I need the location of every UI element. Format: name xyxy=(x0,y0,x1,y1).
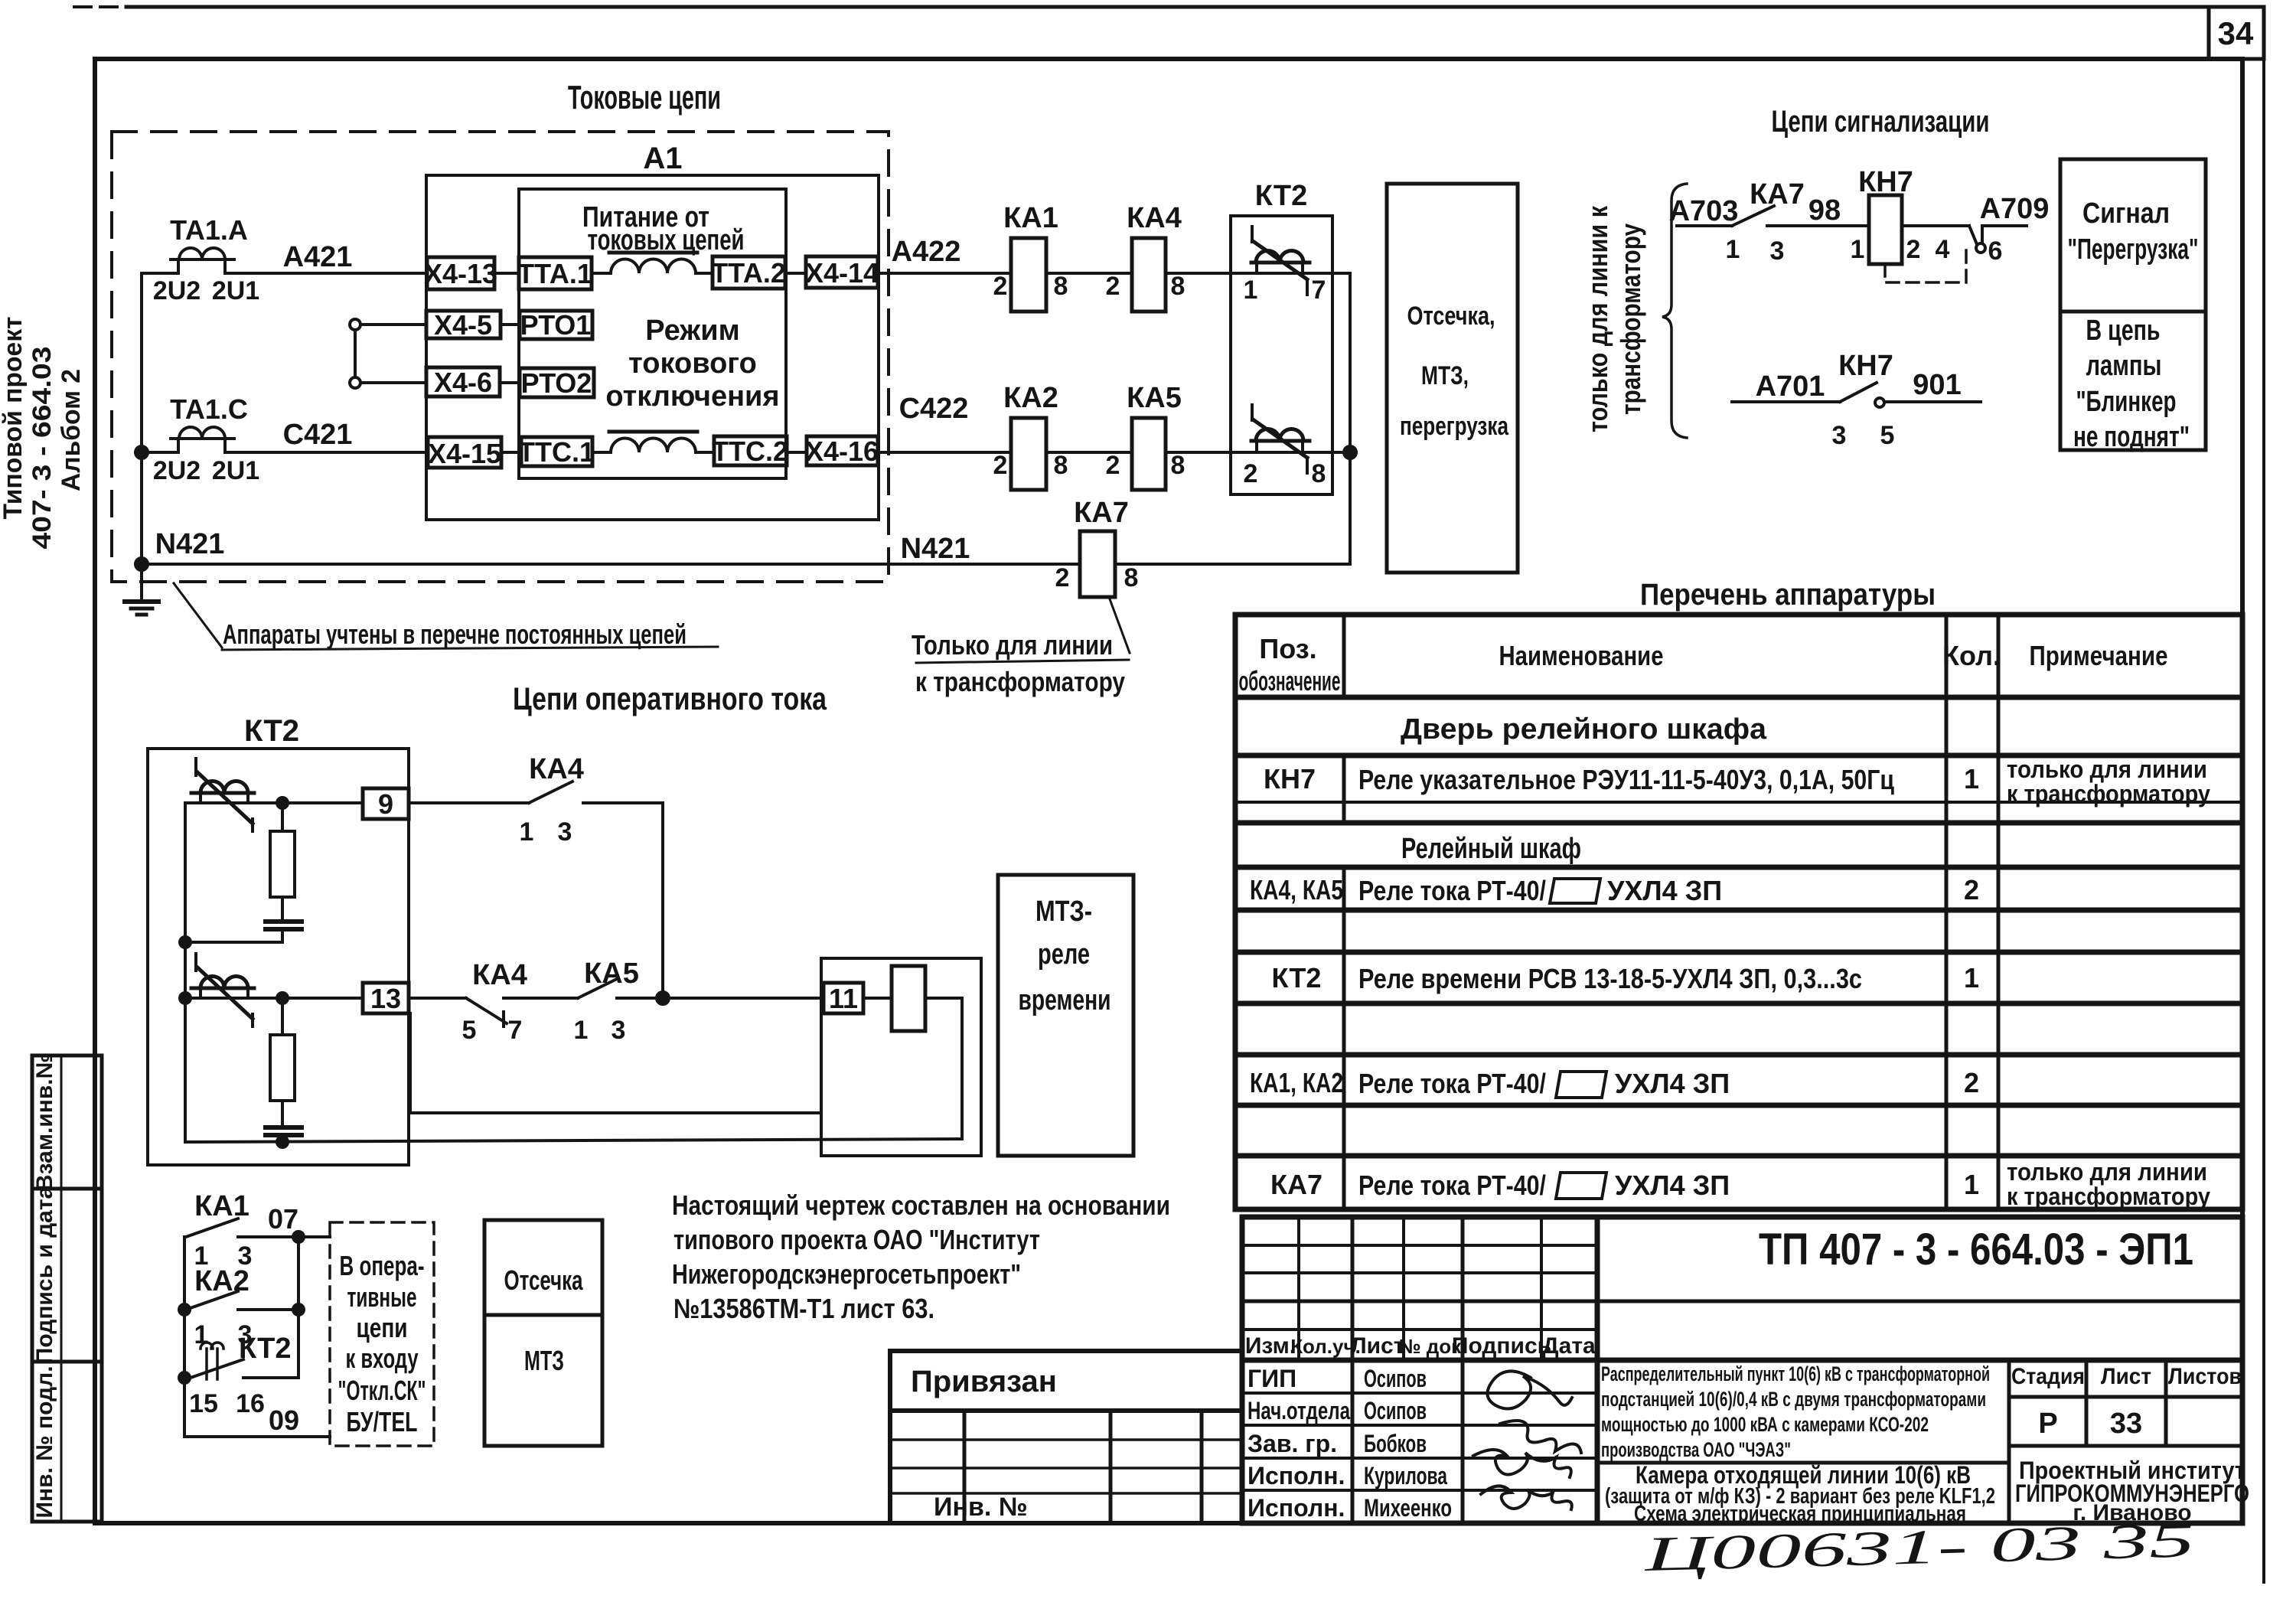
svg-text:УХЛ4 ЗП: УХЛ4 ЗП xyxy=(1615,1068,1730,1099)
svg-text:КА7: КА7 xyxy=(1074,497,1129,529)
svg-text:ТТА.1: ТТА.1 xyxy=(517,258,592,289)
svg-text:УХЛ4 ЗП: УХЛ4 ЗП xyxy=(1615,1170,1730,1201)
svg-text:А422: А422 xyxy=(892,236,961,268)
svg-text:КА2: КА2 xyxy=(1003,382,1058,414)
svg-text:Реле тока РТ-40/: Реле тока РТ-40/ xyxy=(1358,1068,1546,1099)
svg-text:КА4: КА4 xyxy=(529,753,584,785)
svg-text:Кол.: Кол. xyxy=(1942,640,2001,671)
svg-text:С421: С421 xyxy=(283,419,353,451)
svg-text:только для линии к: только для линии к xyxy=(1582,205,1613,432)
svg-text:3: 3 xyxy=(1832,421,1847,450)
svg-text:КН7: КН7 xyxy=(1858,166,1913,198)
svg-text:6: 6 xyxy=(1988,237,2003,266)
svg-text:к трансформатору: к трансформатору xyxy=(2007,1183,2210,1210)
svg-text:№13586ТМ-Т1 лист 63.: №13586ТМ-Т1 лист 63. xyxy=(673,1293,934,1324)
svg-text:Взам.инв.№: Взам.инв.№ xyxy=(32,1053,57,1191)
svg-text:7: 7 xyxy=(1312,276,1326,305)
svg-text:реле: реле xyxy=(1038,938,1090,971)
svg-text:цепи: цепи xyxy=(357,1312,408,1343)
svg-text:2: 2 xyxy=(993,272,1008,301)
svg-text:07: 07 xyxy=(268,1203,298,1235)
svg-text:Примечание: Примечание xyxy=(2030,640,2168,671)
svg-text:КТ2: КТ2 xyxy=(1255,180,1308,212)
svg-text:33: 33 xyxy=(2110,1408,2142,1440)
svg-text:Х4-6: Х4-6 xyxy=(434,367,492,398)
svg-text:34: 34 xyxy=(2218,15,2254,51)
svg-text:3: 3 xyxy=(1770,237,1785,266)
svg-text:2: 2 xyxy=(993,451,1008,480)
svg-text:5: 5 xyxy=(462,1016,477,1045)
svg-text:Инв. № подл.: Инв. № подл. xyxy=(32,1365,57,1518)
svg-text:1: 1 xyxy=(1964,1169,1979,1200)
svg-text:Реле указательное РЭУ11-11-5-4: Реле указательное РЭУ11-11-5-40У3, 0,1А,… xyxy=(1358,764,1894,795)
svg-text:Исполн.: Исполн. xyxy=(1247,1462,1345,1489)
svg-text:КТ2: КТ2 xyxy=(244,714,299,748)
svg-text:1: 1 xyxy=(194,1241,209,1271)
svg-text:мощностью до 1000 кВА с камера: мощностью до 1000 кВА с камерами КСО-202 xyxy=(1601,1413,1929,1436)
svg-text:КА7: КА7 xyxy=(1270,1169,1322,1200)
svg-text:Токовые цепи: Токовые цепи xyxy=(568,79,721,116)
svg-text:2: 2 xyxy=(1055,563,1070,592)
svg-text:Х4-13: Х4-13 xyxy=(424,258,497,289)
svg-text:901: 901 xyxy=(1913,369,1961,401)
svg-text:Листов: Листов xyxy=(2168,1364,2242,1389)
svg-text:лампы: лампы xyxy=(2086,350,2162,382)
svg-text:КА1: КА1 xyxy=(194,1190,249,1222)
svg-text:15: 15 xyxy=(189,1389,218,1418)
svg-text:1: 1 xyxy=(1726,235,1740,264)
svg-text:Перечень аппаратуры: Перечень аппаратуры xyxy=(1640,578,1936,612)
svg-text:13: 13 xyxy=(370,983,401,1014)
svg-text:Нижегородскэнергосетьпроект": Нижегородскэнергосетьпроект" xyxy=(672,1258,1021,1290)
svg-text:Релейный шкаф: Релейный шкаф xyxy=(1401,833,1581,865)
svg-text:только для линии: только для линии xyxy=(2007,755,2207,783)
svg-text:ГИП: ГИП xyxy=(1247,1365,1296,1392)
svg-text:В цепь: В цепь xyxy=(2086,315,2161,347)
svg-text:БУ/ТEL: БУ/ТEL xyxy=(347,1406,418,1437)
svg-text:МТЗ-: МТЗ- xyxy=(1035,896,1092,928)
svg-text:Нач.отдела: Нач.отдела xyxy=(1247,1397,1350,1424)
svg-text:Режим: Режим xyxy=(645,315,739,347)
svg-text:1: 1 xyxy=(194,1320,209,1349)
svg-text:1: 1 xyxy=(1964,763,1979,794)
svg-text:2U2: 2U2 xyxy=(153,276,201,305)
svg-text:Зав. гр.: Зав. гр. xyxy=(1247,1430,1337,1457)
svg-text:Х4-14: Х4-14 xyxy=(805,257,879,289)
svg-text:А709: А709 xyxy=(1980,193,2050,225)
svg-text:Только для линии: Только для линии xyxy=(912,629,1113,661)
svg-text:токового: токового xyxy=(628,347,757,380)
svg-text:2: 2 xyxy=(1106,272,1120,301)
svg-text:ТА1.А: ТА1.А xyxy=(170,214,248,246)
svg-text:"Откл.СК": "Откл.СК" xyxy=(338,1375,426,1406)
svg-text:Отсечка: Отсечка xyxy=(504,1264,584,1296)
svg-text:Настоящий чертеж составлен на: Настоящий чертеж составлен на основании xyxy=(672,1189,1170,1221)
svg-text:ТТС.2: ТТС.2 xyxy=(712,436,788,467)
svg-text:2: 2 xyxy=(1106,451,1120,480)
svg-text:отключения: отключения xyxy=(605,380,779,413)
svg-text:8: 8 xyxy=(1054,272,1068,301)
svg-text:Лист: Лист xyxy=(1351,1333,1405,1359)
svg-text:КА5: КА5 xyxy=(584,958,639,990)
svg-text:трансформатору: трансформатору xyxy=(1615,223,1646,415)
svg-text:Курилова: Курилова xyxy=(1364,1462,1447,1489)
svg-text:3: 3 xyxy=(558,817,572,847)
svg-text:В опера-: В опера- xyxy=(340,1250,425,1281)
svg-text:Альбом 2: Альбом 2 xyxy=(57,369,86,491)
svg-text:1: 1 xyxy=(574,1016,589,1045)
svg-text:4: 4 xyxy=(1936,235,1950,264)
svg-text:Поз.: Поз. xyxy=(1259,633,1316,664)
svg-text:Сигнал: Сигнал xyxy=(2082,197,2170,230)
svg-text:7: 7 xyxy=(508,1016,523,1045)
svg-text:КА1: КА1 xyxy=(1003,202,1058,234)
svg-text:времени: времени xyxy=(1019,984,1111,1016)
svg-text:3: 3 xyxy=(238,1320,253,1349)
svg-text:3: 3 xyxy=(612,1016,626,1045)
svg-text:Реле тока РТ-40/: Реле тока РТ-40/ xyxy=(1358,875,1546,906)
svg-text:2U1: 2U1 xyxy=(212,456,259,485)
svg-text:Стадия: Стадия xyxy=(2011,1364,2085,1389)
svg-text:1: 1 xyxy=(1244,276,1258,305)
svg-text:8: 8 xyxy=(1124,563,1139,592)
svg-text:Х4-5: Х4-5 xyxy=(434,309,492,341)
svg-text:407- 3 - 664.03: 407- 3 - 664.03 xyxy=(28,347,57,550)
svg-text:ТП 407 - 3 - 664.03 - ЭП1: ТП 407 - 3 - 664.03 - ЭП1 xyxy=(1759,1225,2193,1274)
svg-text:ТТС.1: ТТС.1 xyxy=(518,436,595,468)
svg-text:5: 5 xyxy=(1880,421,1895,450)
svg-text:1: 1 xyxy=(1964,962,1979,994)
svg-text:производства ОАО "ЧЭАЗ": производства ОАО "ЧЭАЗ" xyxy=(1601,1438,1791,1461)
svg-text:Исполн.: Исполн. xyxy=(1247,1494,1345,1522)
svg-text:тивные: тивные xyxy=(347,1281,417,1313)
svg-text:N421: N421 xyxy=(901,533,970,565)
svg-text:к трансформатору: к трансформатору xyxy=(915,666,1125,697)
svg-text:А703: А703 xyxy=(1669,195,1739,227)
svg-text:КА5: КА5 xyxy=(1127,382,1182,414)
svg-text:Отсечка,: Отсечка, xyxy=(1407,302,1495,331)
svg-text:Осипов: Осипов xyxy=(1364,1365,1427,1392)
svg-text:Дата: Дата xyxy=(1542,1333,1596,1359)
svg-text:Х4-15: Х4-15 xyxy=(428,438,501,469)
svg-text:Аппараты учтены в перечне пост: Аппараты учтены в перечне постоянных цеп… xyxy=(223,618,687,650)
svg-text:Инв. №: Инв. № xyxy=(934,1493,1028,1522)
svg-text:РТО1: РТО1 xyxy=(520,309,592,341)
svg-text:16: 16 xyxy=(236,1389,265,1418)
svg-text:Распределительный пункт 10(6): Распределительный пункт 10(6) кВ с транс… xyxy=(1601,1362,1990,1385)
svg-text:Х4-16: Х4-16 xyxy=(805,436,879,467)
svg-text:"Блинкер: "Блинкер xyxy=(2076,386,2177,418)
svg-text:А701: А701 xyxy=(1756,370,1825,403)
svg-text:Реле времени РСВ 13-18-5-УХЛ4: Реле времени РСВ 13-18-5-УХЛ4 ЗП, 0,3...… xyxy=(1358,963,1862,994)
svg-text:Типовой проект: Типовой проект xyxy=(0,317,28,520)
svg-text:С422: С422 xyxy=(899,393,969,425)
svg-text:КТ2: КТ2 xyxy=(1272,962,1322,994)
svg-text:перегрузка: перегрузка xyxy=(1400,412,1509,441)
svg-text:Дверь релейного шкафа: Дверь релейного шкафа xyxy=(1401,713,1767,746)
svg-text:МТЗ: МТЗ xyxy=(524,1345,564,1376)
svg-text:2: 2 xyxy=(1964,1067,1979,1098)
svg-text:Осипов: Осипов xyxy=(1364,1397,1427,1424)
svg-text:Р: Р xyxy=(2038,1408,2057,1440)
svg-text:2U1: 2U1 xyxy=(212,276,259,305)
svg-text:к трансформатору: к трансформатору xyxy=(2007,780,2210,808)
svg-text:УХЛ4 ЗП: УХЛ4 ЗП xyxy=(1607,875,1722,906)
svg-text:98: 98 xyxy=(1808,194,1841,227)
svg-text:КА7: КА7 xyxy=(1750,178,1805,210)
svg-text:типового проекта ОАО "Институт: типового проекта ОАО "Институт xyxy=(673,1224,1040,1255)
svg-text:КА4, КА5: КА4, КА5 xyxy=(1250,874,1343,905)
svg-text:не поднят": не поднят" xyxy=(2073,421,2190,453)
svg-text:РТО2: РТО2 xyxy=(521,367,592,399)
svg-text:Наименование: Наименование xyxy=(1499,640,1664,671)
svg-text:ТА1.С: ТА1.С xyxy=(170,393,248,425)
svg-text:токовых цепей: токовых цепей xyxy=(588,224,745,256)
svg-text:3: 3 xyxy=(238,1241,253,1271)
svg-text:Привязан: Привязан xyxy=(911,1365,1057,1398)
svg-text:Бобков: Бобков xyxy=(1364,1430,1427,1457)
svg-text:9: 9 xyxy=(378,788,393,820)
svg-text:1: 1 xyxy=(1851,235,1865,264)
svg-text:Цепи сигнализации: Цепи сигнализации xyxy=(1772,105,1990,139)
svg-text:2: 2 xyxy=(1964,874,1979,905)
svg-text:КА4: КА4 xyxy=(472,959,527,991)
svg-text:КН7: КН7 xyxy=(1264,763,1316,794)
svg-text:КН7: КН7 xyxy=(1838,350,1893,382)
svg-text:КА4: КА4 xyxy=(1127,202,1182,234)
svg-text:2U2: 2U2 xyxy=(153,456,201,485)
svg-text:8: 8 xyxy=(1171,272,1186,301)
svg-text:к входу: к входу xyxy=(346,1343,419,1374)
svg-text:Подпись и дата: Подпись и дата xyxy=(32,1186,57,1364)
svg-text:А1: А1 xyxy=(643,142,682,175)
svg-text:Цепи оперативного тока: Цепи оперативного тока xyxy=(513,680,827,716)
svg-text:только для линии: только для линии xyxy=(2007,1158,2207,1186)
svg-text:КА1, КА2: КА1, КА2 xyxy=(1250,1067,1343,1098)
svg-text:Подпись: Подпись xyxy=(1452,1333,1551,1359)
svg-text:8: 8 xyxy=(1171,451,1186,480)
svg-text:2: 2 xyxy=(1244,459,1258,488)
svg-text:ТТА.2: ТТА.2 xyxy=(711,257,786,289)
svg-text:11: 11 xyxy=(829,983,858,1014)
svg-text:2: 2 xyxy=(1906,235,1921,264)
svg-text:09: 09 xyxy=(269,1405,299,1436)
svg-text:"Перегрузка": "Перегрузка" xyxy=(2068,233,2199,266)
svg-text:1: 1 xyxy=(520,817,534,847)
svg-text:Михеенко: Михеенко xyxy=(1364,1494,1452,1522)
svg-text:Лист: Лист xyxy=(2101,1364,2151,1389)
svg-text:подстанцией 10(6)/0,4 кВ с дву: подстанцией 10(6)/0,4 кВ с двумя трансфо… xyxy=(1601,1388,1986,1411)
svg-text:МТЗ,: МТЗ, xyxy=(1421,361,1469,390)
svg-text:8: 8 xyxy=(1312,459,1326,488)
svg-text:А421: А421 xyxy=(283,241,353,273)
svg-text:8: 8 xyxy=(1054,451,1068,480)
svg-text:N421: N421 xyxy=(155,528,225,560)
svg-text:Изм.: Изм. xyxy=(1245,1333,1296,1359)
svg-text:Реле тока РТ-40/: Реле тока РТ-40/ xyxy=(1358,1170,1546,1201)
svg-text:обозначение: обозначение xyxy=(1239,665,1341,697)
